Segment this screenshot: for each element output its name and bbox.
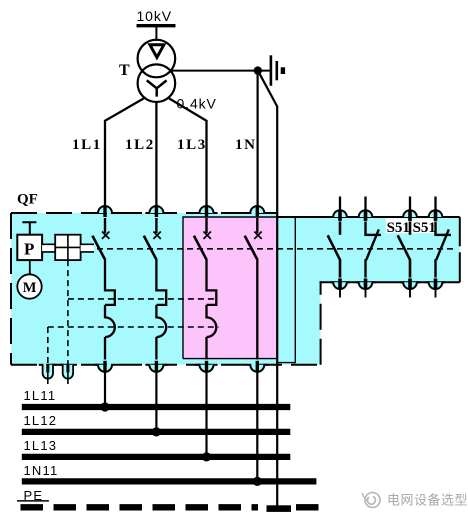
wire L2 to bus: [155, 369, 157, 432]
svg-text:QF: QF: [17, 192, 38, 208]
small aux terminal 1: [39, 364, 57, 384]
PE wire vertical: [276, 106, 278, 509]
magnetic trip element: [105, 317, 115, 337]
svg-text:1L1: 1L1: [72, 137, 102, 153]
contact X pole L2: [153, 232, 160, 239]
label S51 b: [411, 218, 436, 233]
PE bar offset dash: [267, 505, 292, 512]
wire P to M: [29, 260, 31, 276]
terminal top L3: [196, 206, 218, 217]
aux pole 2 NC: [356, 197, 382, 298]
PE label underline: [17, 500, 49, 502]
linkage dashed line across poles: [97, 248, 453, 250]
busbar PE dashed bar: [21, 504, 259, 510]
svg-text:S51: S51: [413, 220, 436, 236]
QF enclosure dashed border left edge: [10, 213, 12, 365]
dashed vertical to aux terminal 2: [47, 327, 49, 364]
terminal top N: [246, 206, 268, 217]
wire terminal to contact: [104, 218, 106, 233]
breaker pole N: [245, 218, 262, 360]
contact X pole L3: [204, 232, 211, 239]
terminal top L2: [145, 206, 167, 217]
latch mechanism box: [55, 235, 80, 260]
contact X pole N: [254, 232, 261, 239]
breaker pole L1: [92, 218, 114, 360]
wire L3 to bus: [205, 369, 207, 456]
switch blade: [144, 236, 156, 259]
wire terminal to contact: [155, 218, 157, 233]
thermal overload element: [207, 290, 217, 305]
svg-text:T: T: [119, 62, 130, 79]
thermal overload element: [156, 290, 166, 305]
node 1L11 junction: [100, 402, 109, 411]
terminal bottom N: [246, 361, 268, 372]
magnetic trip element: [207, 317, 217, 337]
svg-text:1L12: 1L12: [24, 413, 58, 428]
star point wire: [171, 70, 270, 72]
breaker pole L2: [144, 218, 166, 360]
transformer T primary winding: [138, 40, 176, 78]
wire L1 diagonal: [105, 98, 144, 210]
aux block top edge: [277, 216, 460, 218]
wire L3 diagonal: [169, 98, 207, 210]
switch blade: [92, 236, 104, 259]
svg-text:M: M: [23, 280, 37, 296]
node 1L12 junction: [152, 427, 161, 436]
aux block right edge: [459, 217, 461, 282]
svg-text:0.4kV: 0.4kV: [177, 96, 217, 112]
wire busbar to transformer: [155, 27, 157, 41]
aux pole 4 NC: [426, 197, 452, 298]
pink highlighted region: [183, 217, 277, 359]
svg-text:1N11: 1N11: [24, 463, 59, 478]
wye symbol: [147, 80, 167, 96]
terminal top L1: [94, 206, 116, 217]
switch blade: [245, 236, 257, 259]
transformer T secondary winding: [138, 64, 176, 102]
aux block bottom edge: [320, 281, 460, 283]
inner solid rect right edge: [276, 217, 296, 363]
switch blade: [194, 236, 206, 259]
terminal bottom L3: [196, 361, 218, 372]
wire N to bus: [256, 369, 258, 481]
aux pole 3 NO: [398, 197, 420, 298]
aux contact block: [328, 197, 451, 298]
QF enclosure cyan fill: [11, 213, 460, 365]
QF enclosure dashed border step edge: [320, 281, 322, 365]
PE bar last dash: [296, 504, 319, 510]
10kV busbar: [137, 24, 176, 27]
QF enclosure dashed border top edge: [11, 212, 277, 214]
small aux terminal 2: [59, 364, 77, 384]
QF enclosure dashed border bottom edge: [11, 364, 321, 366]
wire L1 to bus: [104, 369, 106, 407]
1N wire: [257, 71, 259, 210]
trip linkage dashed magnetic: [48, 326, 219, 328]
node star point junction: [254, 66, 262, 74]
delta symbol: [150, 45, 164, 58]
release coil T-bar: [22, 222, 36, 235]
relay P box: [17, 235, 42, 260]
svg-text:1L3: 1L3: [177, 137, 207, 153]
mechanical link P to latch: [42, 244, 55, 252]
svg-text:1L13: 1L13: [24, 438, 58, 453]
breaker pole L3: [194, 218, 216, 360]
watermark logo: [362, 493, 380, 508]
wire L2 vertical: [155, 102, 157, 210]
terminal bottom L2: [145, 361, 167, 372]
aux pole 1 NO: [328, 197, 350, 298]
0.4kV white backing: [175, 97, 218, 112]
svg-text:1N: 1N: [235, 137, 257, 153]
svg-text:S51: S51: [387, 220, 410, 236]
contact X pole L1: [102, 232, 109, 239]
svg-text:电网设备选型: 电网设备选型: [387, 493, 468, 508]
pink region border: [183, 217, 295, 359]
wire terminal to contact: [256, 218, 258, 233]
svg-text:P: P: [24, 240, 34, 259]
dashed vertical latch to aux terminal: [67, 260, 69, 364]
thermal overload element: [105, 290, 115, 305]
ground symbol: [271, 55, 283, 86]
label S51 a: [386, 218, 410, 233]
svg-text:1L2: 1L2: [125, 137, 155, 153]
node 1N11 junction: [253, 477, 262, 486]
mechanical link latch to blade: [81, 244, 94, 252]
svg-text:1L11: 1L11: [24, 388, 57, 403]
motor M: [17, 274, 41, 298]
PE wire diagonal: [258, 71, 277, 106]
svg-text:10kV: 10kV: [137, 8, 173, 24]
wire terminal to contact: [205, 218, 207, 233]
node 1L13 junction: [202, 452, 211, 461]
terminal bottom L1: [94, 361, 116, 372]
trip linkage dashed thermal: [68, 298, 217, 300]
magnetic trip element: [156, 317, 166, 337]
